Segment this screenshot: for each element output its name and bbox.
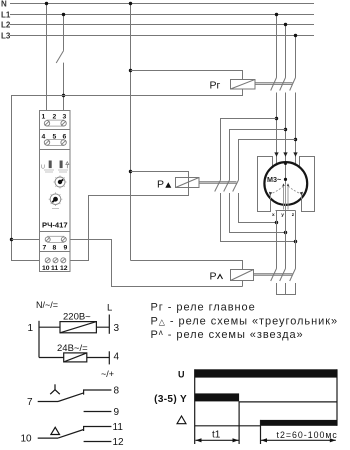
svg-text:(3-5) Y: (3-5) Y [154,394,187,405]
screw terminal 9 [61,237,66,242]
wire x winding drop [276,211,278,269]
svg-text:Р△ - реле схемы «треугольник»: Р△ - реле схемы «треугольник» [151,315,339,327]
arrow phase C into motor [293,152,297,156]
svg-text:Рʌ - реле схемы «звезда»: Рʌ - реле схемы «звезда» [151,328,304,341]
svg-text:U: U [41,165,45,171]
contact 11 line [84,427,112,432]
wire phase B to motor center [285,93,287,185]
svg-text:8: 8 [114,385,120,396]
wire to terminal 7 [12,239,47,241]
junction phase B on L2 [284,23,287,26]
svg-text:N/~/=: N/~/= [36,300,58,310]
svg-text:t1: t1 [212,430,221,441]
star symbol [50,384,60,394]
contact 7 wire [38,401,58,403]
wire L1 rail [10,14,314,16]
contact Pg-2 [280,78,286,91]
svg-text:x: x [272,213,275,218]
wire x to star bar [276,283,278,295]
wire delta branch 1 lower [221,193,296,242]
link Pd coil to contacts [199,181,237,183]
wire delta branch 2 [230,130,286,181]
contact Pz-1 [271,269,277,282]
timing t1 delimiter [238,401,240,444]
wire switch to terminal 3 [63,63,65,121]
wire L2 rail [10,24,314,26]
contact Pd-2 [224,180,230,192]
svg-text:9: 9 [114,407,120,418]
arrow phase B into motor [283,152,287,156]
wire N bus vertical [130,4,132,261]
junction motor star center [284,178,287,181]
timing delta label [177,416,186,424]
contact 7-8 arm [58,393,84,402]
junction inside motor top [284,162,287,165]
screw terminal 12 [61,258,66,263]
wire delta branch 2 lower [230,193,286,233]
svg-text:U: U [178,370,185,380]
terminal tick 3 [108,315,110,334]
timing t2 arrow [261,438,336,442]
timing t1 arrow [196,438,239,442]
svg-text:РЧ-417: РЧ-417 [42,221,68,230]
supply wire 24V [39,357,109,359]
screw terminal 11 [53,258,58,263]
motor terminal box right [300,157,315,212]
wire phase A drop [276,15,278,78]
timing axis right [336,369,338,426]
junction N to Pg coil [129,69,132,72]
svg-text:10: 10 [21,434,33,445]
junction N tap 2 [129,2,132,5]
motor winding lines [271,184,302,211]
junction switch output node [62,94,65,97]
terminal clamp 7-9 [48,236,64,242]
wire Pd coil loop [66,172,189,261]
wire terminal 9 to Pz loop [66,240,243,287]
svg-text:М3~: М3~ [267,175,281,184]
wire phase C to motor [295,93,297,165]
svg-text:3: 3 [114,323,120,334]
relay coil Pg [231,80,256,90]
svg-text:4: 4 [114,352,120,363]
wire delta branch 3 lower [239,193,277,223]
junction delta1 to z [294,240,297,243]
supply left vertical [38,321,40,358]
wire N rail [10,3,314,5]
junction N to Pd coil [129,170,132,173]
supply 24V box [64,353,87,362]
contact Pz-2 [280,269,286,282]
junction delta2 to y [284,231,287,234]
screw terminal 3 [61,121,66,126]
motor terminal tab [276,210,296,212]
svg-text:4: 4 [42,134,46,141]
motor M1 circle [264,162,307,205]
relay coil Pd [176,178,200,188]
timing axis left [194,369,196,444]
svg-text:12: 12 [60,265,68,272]
relay coil Pz [231,270,254,281]
svg-text:24В~/=: 24В~/= [57,343,88,354]
svg-text:Р: Р [210,271,217,283]
timing U bar [195,369,337,377]
supply 220V box [60,322,96,333]
svg-text:L2: L2 [1,21,11,30]
svg-text:7: 7 [43,245,47,252]
junction phase A on L1 [275,13,278,16]
wire delta branch 1 [221,119,277,181]
screw terminal 6 [61,140,66,145]
star point bar [276,294,296,296]
junction phase B delta tap [284,128,287,131]
indicator LED 1 [49,161,52,169]
wire y to star bar [285,283,287,295]
svg-text:8: 8 [53,245,57,252]
svg-text:L3: L3 [1,31,11,40]
terminal clamp 1-3 [47,120,64,126]
dial 2 [49,192,63,206]
svg-text:9: 9 [64,245,68,252]
link Pg coil to contacts [255,82,293,84]
tiny label under dial2 [52,208,59,210]
contact Pd-1 [215,180,221,192]
wire phase B drop [285,25,287,78]
svg-text:3: 3 [63,114,67,121]
wire Pg coil loop [12,71,243,261]
contact 9 line [84,411,112,413]
junction terminal 7 tap [10,238,13,241]
screw terminal 7 [45,237,50,242]
junction phase A delta tap [275,117,278,120]
svg-text:N: N [1,0,7,9]
svg-text:11: 11 [51,265,58,272]
dial 1 [54,176,67,189]
link Pz coil to contacts [254,273,293,275]
indicator triangle symbol [66,162,69,169]
wire L1 to switch [63,15,65,51]
svg-text:10: 10 [42,265,50,272]
screw terminal 10 [45,258,50,263]
wire phase C drop [295,36,297,78]
svg-text:z: z [292,213,295,218]
svg-text:7: 7 [27,397,33,408]
screw terminal 1 [44,121,49,126]
junction phase C on L3 [294,34,297,37]
wire z to star bar [295,283,297,295]
svg-text:y: y [281,213,284,218]
indicator LED 2 [60,161,63,169]
junction L1 tap [62,13,65,16]
svg-text:L: L [107,303,112,314]
timing delta bar [261,420,338,426]
contact 8 line [84,390,112,395]
svg-text:L1: L1 [1,10,11,19]
timing Y bar [195,393,239,401]
supply wire 220V [39,326,109,328]
contact Pd-3 [233,180,239,192]
svg-text:2: 2 [53,114,57,121]
contact Pg-1 [271,78,277,91]
svg-text:11: 11 [113,422,124,433]
contact 10 wire [38,437,58,439]
motor winding arrowheads [282,183,284,186]
contact 10-11 arm [58,430,84,439]
junction delta3 to x [275,221,278,224]
svg-text:12: 12 [113,437,125,448]
svg-text:220В~: 220В~ [63,312,91,323]
screw terminal 4 [44,140,49,145]
timing Y low line [239,401,337,403]
arrow phase A into motor [274,152,278,156]
contact Pz-3 [290,269,296,282]
terminal clamp 4-6 [47,140,64,146]
wire L3 rail [10,35,314,37]
terminal tick 4 [108,351,110,364]
wire delta branch 3 [239,140,296,181]
timing delta low line [195,425,261,427]
device RCh-417 body [40,111,71,272]
wire Pz coil loop [131,261,243,287]
svg-text:Рг - реле главное: Рг - реле главное [151,302,256,314]
contact Pg-3 [290,78,296,91]
wire y winding drop [285,184,287,269]
svg-text:1: 1 [28,323,34,334]
wire phase B inside motor [285,163,287,185]
svg-text:1: 1 [42,114,46,121]
switch QF [56,51,63,63]
svg-text:Рг: Рг [210,80,221,92]
junction phase C delta tap [294,138,297,141]
wire N to terminal 1 [46,4,48,121]
svg-text:t2=60-100мс: t2=60-100мс [277,430,338,440]
contact 12 line [84,441,112,443]
tiny scale marks [44,170,68,172]
svg-text:Р: Р [157,179,164,191]
motor terminal box left [258,157,273,212]
timing t2 delimiter [260,420,262,444]
wire z winding drop [295,211,297,269]
junction N tap 1 [45,2,48,5]
triangle symbol [51,427,60,434]
wire phase A to motor [276,93,278,165]
svg-text:~/+: ~/+ [101,369,114,379]
